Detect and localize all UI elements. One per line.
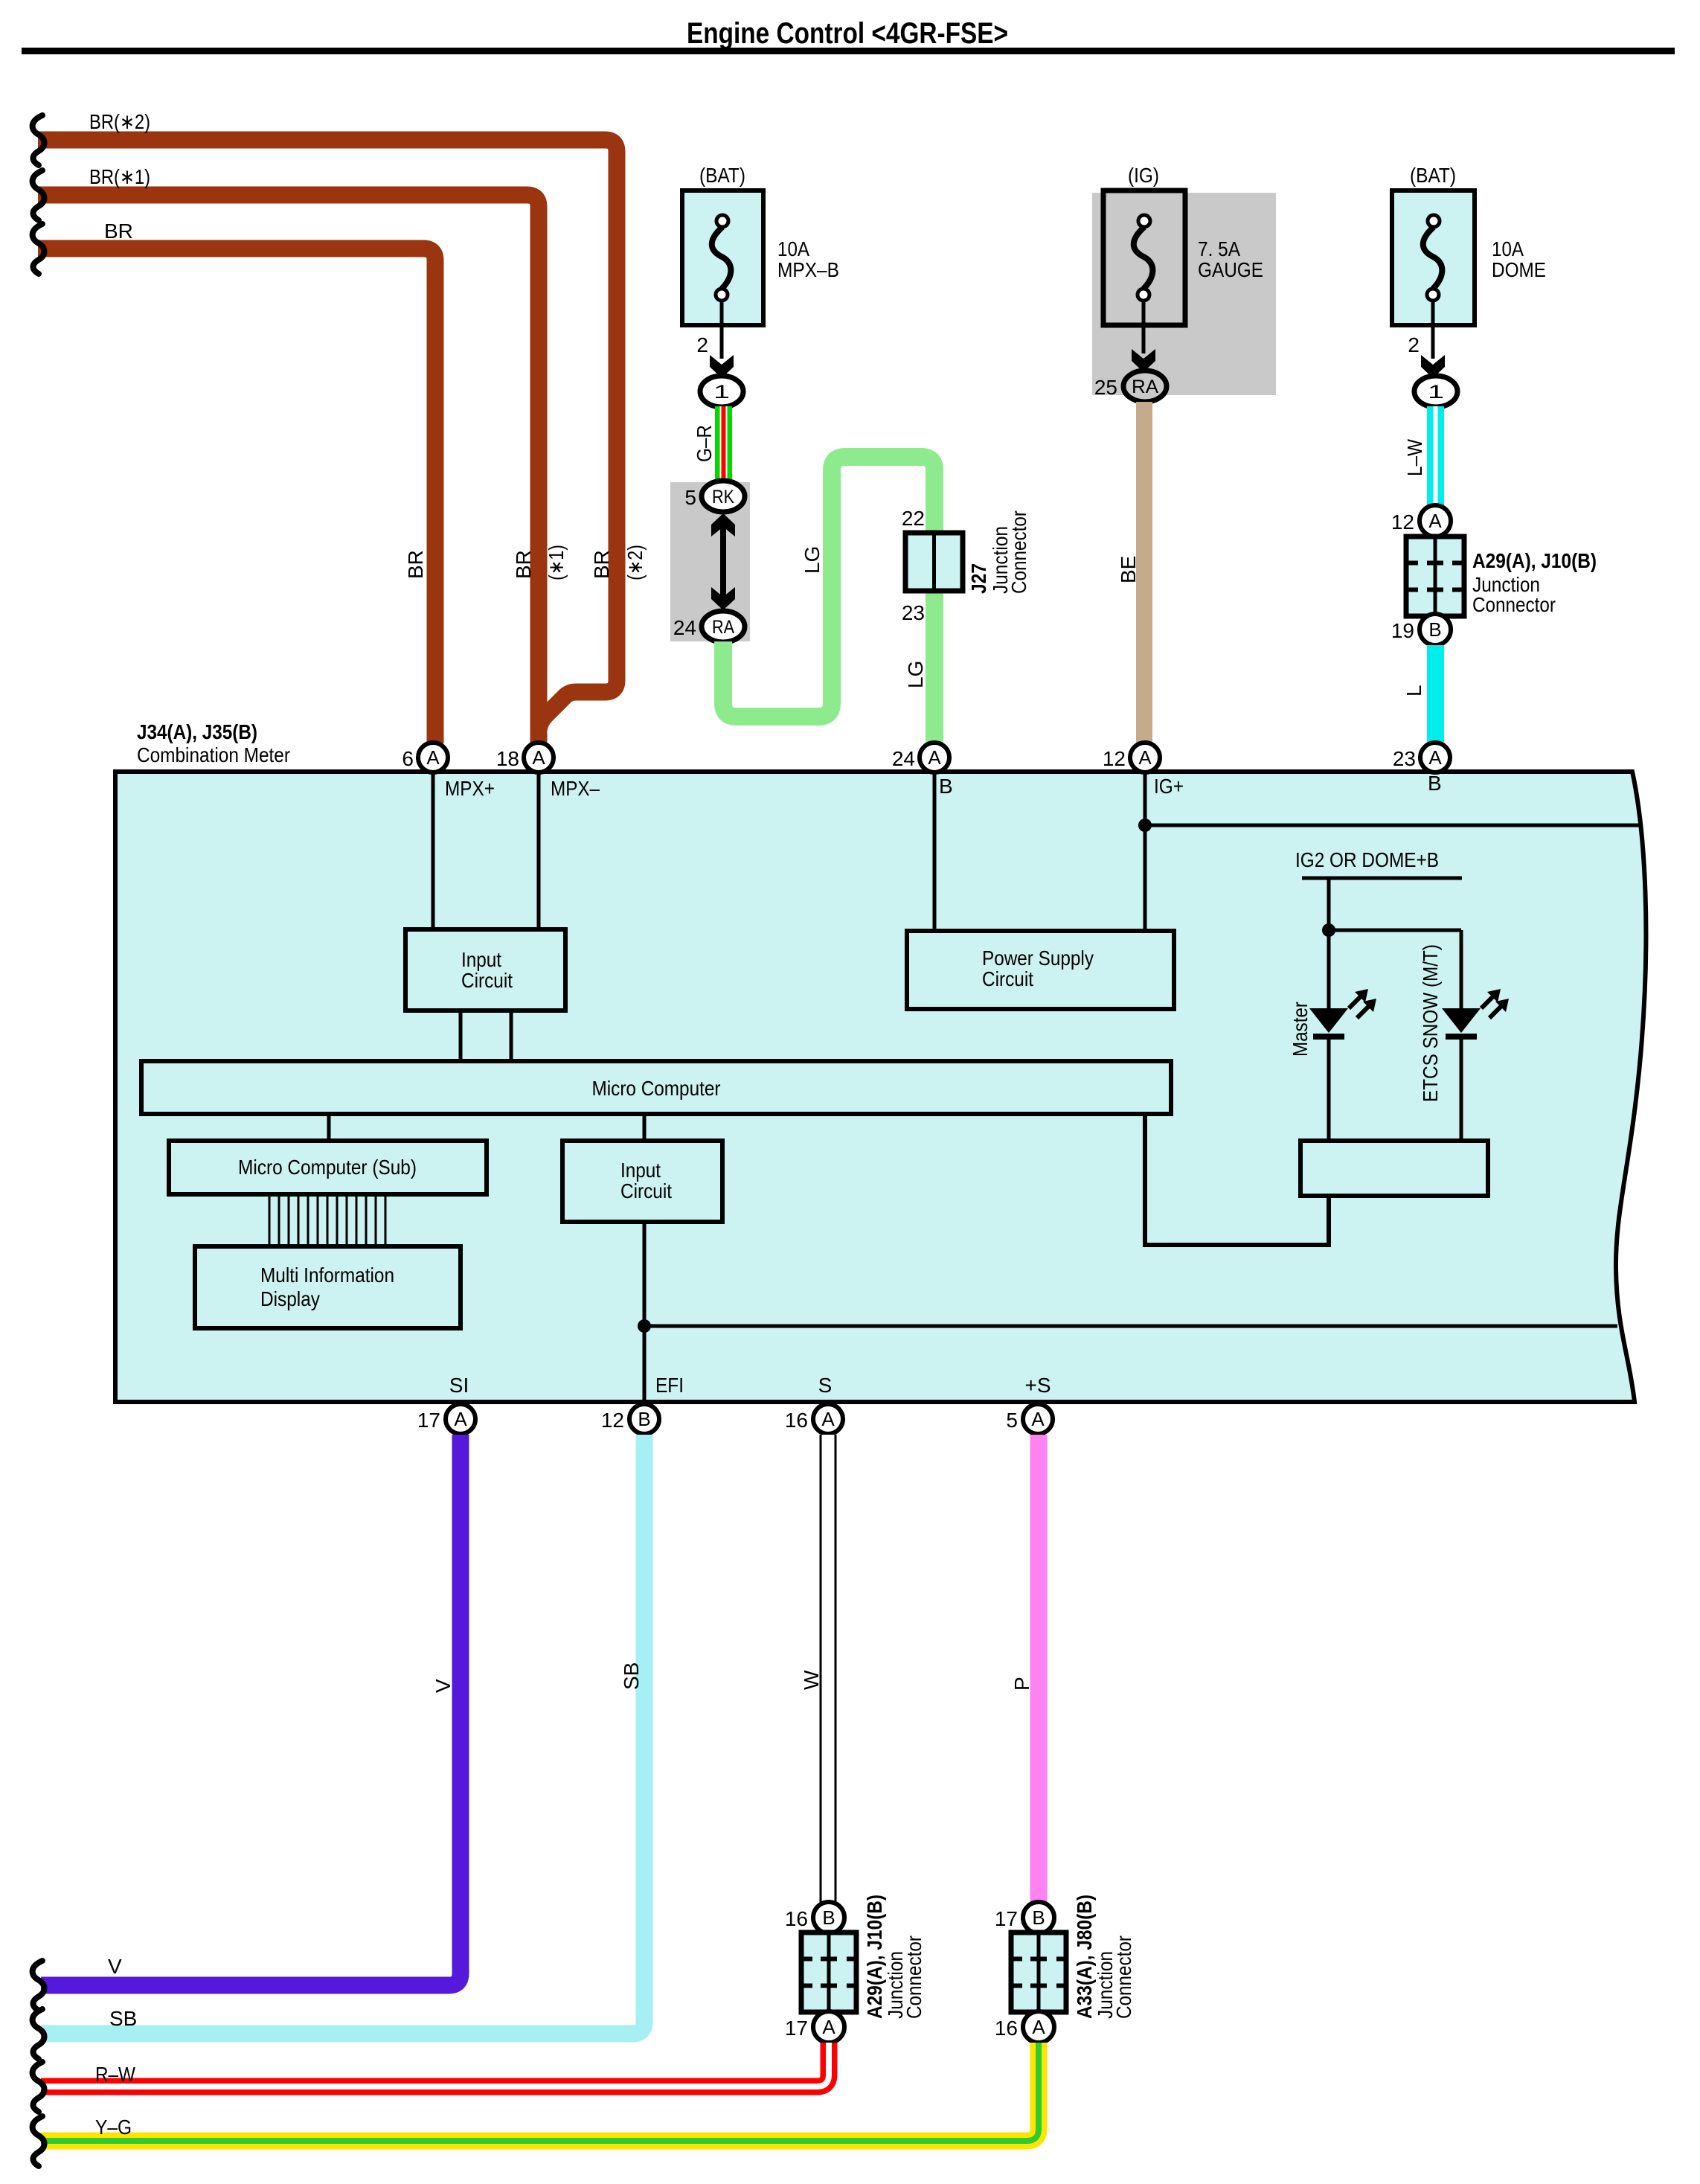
svg-text:B: B: [1032, 1906, 1045, 1929]
svg-text:A: A: [454, 1408, 467, 1430]
wire BE: [1136, 402, 1152, 743]
double arrow RK-RA: [720, 521, 726, 603]
wire SB: [41, 1435, 644, 2034]
svg-text:BR: BR: [590, 550, 613, 579]
Input Circuit box 1: [405, 929, 565, 1011]
svg-text:BR: BR: [404, 550, 427, 579]
svg-text:MPX–B: MPX–B: [777, 258, 839, 281]
svg-text:22: 22: [902, 507, 925, 530]
pin 16 circle B (A29 bottom): [813, 1902, 844, 1933]
ribbon Sub to Multi Information Display: [269, 1194, 385, 1246]
Multi Information Display box: [195, 1246, 461, 1328]
svg-text:B: B: [822, 1906, 835, 1929]
svg-text:A: A: [822, 2016, 835, 2038]
svg-text:B: B: [638, 1408, 650, 1430]
svg-text:Display: Display: [260, 1287, 320, 1310]
svg-text:SB: SB: [620, 1662, 643, 1690]
wire BR(*2): [38, 140, 617, 743]
pin 18 circle A (MPX-): [524, 743, 554, 772]
svg-text:Power Supply: Power Supply: [982, 947, 1094, 970]
relay block gray box: [670, 482, 750, 641]
svg-text:Micro Computer: Micro Computer: [592, 1077, 721, 1100]
torn end Y-G: [33, 2116, 45, 2166]
svg-text:A33(A), J80(B): A33(A), J80(B): [1073, 1895, 1096, 2019]
Micro Computer box: [141, 1061, 1171, 1114]
arrow from fuse F2: [1142, 301, 1146, 353]
svg-text:19: 19: [1391, 619, 1414, 642]
wire V: [41, 1435, 461, 1985]
title rule: [22, 48, 1675, 54]
svg-text:W: W: [800, 1670, 823, 1690]
svg-text:23: 23: [1393, 747, 1416, 770]
svg-text:A: A: [426, 746, 440, 769]
svg-text:LG: LG: [801, 546, 824, 574]
svg-text:RK: RK: [712, 487, 734, 507]
svg-text:MPX–: MPX–: [551, 777, 600, 800]
svg-text:Circuit: Circuit: [461, 969, 513, 992]
pin 12 circle A (IG+): [1130, 743, 1160, 772]
svg-text:(∗2): (∗2): [623, 545, 647, 580]
svg-text:A: A: [1032, 2016, 1045, 2038]
node LED branch: [1322, 923, 1335, 937]
svg-text:17: 17: [995, 1907, 1018, 1930]
svg-text:B: B: [1428, 772, 1442, 795]
pin 2 of fuse F1: [720, 301, 724, 359]
svg-text:17: 17: [417, 1409, 440, 1432]
svg-text:A: A: [1428, 746, 1442, 769]
svg-text:1: 1: [1428, 382, 1444, 403]
svg-text:V: V: [108, 1955, 122, 1978]
pin 24 circle A (B): [920, 743, 949, 772]
wires Input Circuit 1 to Micro Computer: [459, 1011, 463, 1061]
svg-text:L: L: [1402, 685, 1425, 696]
svg-text:BR: BR: [104, 220, 133, 243]
svg-text:BR(∗2): BR(∗2): [89, 110, 150, 133]
svg-text:BE: BE: [1117, 556, 1140, 583]
svg-text:BR: BR: [512, 550, 535, 579]
svg-text:(BAT): (BAT): [1410, 164, 1456, 187]
svg-text:L–W: L–W: [1403, 439, 1426, 476]
svg-text:IG2 OR DOME+B: IG2 OR DOME+B: [1295, 848, 1439, 871]
power bar IG2 OR DOME+B: [1302, 877, 1462, 880]
svg-text:24: 24: [673, 616, 696, 639]
svg-text:Circuit: Circuit: [982, 967, 1033, 990]
node IG+ junction: [1138, 819, 1152, 832]
wire B internal: [933, 772, 937, 931]
svg-text:DOME: DOME: [1492, 258, 1546, 281]
svg-text:A: A: [821, 1408, 835, 1430]
connector circle 1 (F3): [1414, 376, 1457, 407]
wire MPX- internal: [537, 772, 541, 929]
pin 6 circle A (MPX+): [418, 743, 448, 772]
svg-text:MPX+: MPX+: [445, 777, 495, 800]
torn end BR: [33, 224, 45, 274]
svg-text:Engine Control <4GR-FSE>: Engine Control <4GR-FSE>: [687, 17, 1008, 50]
wire IG+ internal: [1144, 772, 1147, 931]
gray background for fuse F2: [1092, 193, 1276, 395]
svg-text:A29(A), J10(B): A29(A), J10(B): [1472, 549, 1597, 572]
combination meter body: [115, 772, 1646, 1402]
connector circle 1 (F1): [700, 376, 743, 407]
svg-text:Multi Information: Multi Information: [260, 1264, 394, 1287]
svg-text:J34(A), J35(B): J34(A), J35(B): [137, 720, 257, 743]
LED ETCS SNOW (M/T): [1442, 1008, 1481, 1033]
svg-text:P: P: [1010, 1677, 1033, 1691]
wire Micro Computer to Input Circuit 2: [643, 1114, 647, 1141]
svg-text:B: B: [939, 775, 953, 798]
svg-text:GAUGE: GAUGE: [1198, 258, 1263, 281]
node EFI junction: [638, 1319, 651, 1333]
svg-text:SI: SI: [449, 1374, 469, 1397]
pin 17 circle A (A29 bottom): [813, 2011, 844, 2043]
svg-text:5: 5: [684, 486, 696, 509]
pin 16 circle A (A33): [1023, 2011, 1054, 2043]
svg-text:12: 12: [601, 1409, 624, 1432]
torn end SB: [33, 2009, 45, 2059]
svg-text:16: 16: [785, 1409, 808, 1432]
wire EFI internal: [643, 1222, 647, 1403]
svg-text:16: 16: [785, 1907, 808, 1930]
junction connector J27: [905, 533, 963, 591]
wire L: [1427, 645, 1444, 743]
arrow from fuse F1: [710, 355, 734, 378]
pin 12 circle B (EFI): [629, 1404, 659, 1434]
svg-text:G–R: G–R: [693, 425, 716, 462]
Input Circuit box 2: [562, 1141, 722, 1222]
Power Supply Circuit box: [907, 931, 1174, 1009]
wire EFI to page edge: [644, 1325, 1617, 1328]
svg-text:B: B: [1428, 618, 1441, 641]
wire LG: [723, 457, 934, 743]
wire BR(*1): [38, 195, 539, 743]
connector oval RA pin 25 (F2): [1123, 371, 1167, 402]
svg-text:1: 1: [713, 382, 730, 403]
svg-text:J27: J27: [967, 563, 990, 594]
svg-text:10A: 10A: [1492, 237, 1524, 260]
pin 2 of fuse F3: [1431, 301, 1435, 359]
svg-text:A: A: [1138, 746, 1152, 769]
svg-text:+S: +S: [1024, 1374, 1051, 1397]
torn end BR(*2): [33, 115, 45, 165]
svg-text:12: 12: [1103, 747, 1126, 770]
svg-text:(IG): (IG): [1128, 164, 1159, 187]
svg-text:Circuit: Circuit: [620, 1179, 672, 1203]
svg-text:5: 5: [1006, 1409, 1018, 1432]
svg-text:RA: RA: [1132, 377, 1158, 397]
svg-text:Master: Master: [1289, 1002, 1312, 1057]
svg-text:Micro Computer (Sub): Micro Computer (Sub): [238, 1156, 417, 1179]
svg-text:25: 25: [1094, 376, 1117, 399]
junction connector A29(A), J10(B) bottom: [801, 1932, 856, 2012]
pin 17 circle B (A33): [1023, 1902, 1054, 1933]
svg-text:Input: Input: [620, 1159, 661, 1182]
svg-text:Input: Input: [461, 948, 501, 971]
svg-text:A29(A), J10(B): A29(A), J10(B): [863, 1895, 886, 2019]
wire IG+ to page edge: [1145, 824, 1642, 827]
wire G-R: [715, 406, 732, 481]
svg-text:A: A: [1428, 510, 1442, 532]
LED driver box: [1300, 1141, 1488, 1196]
svg-text:BR(∗1): BR(∗1): [89, 165, 150, 188]
svg-text:6: 6: [402, 747, 414, 770]
wire Micro Computer to Sub: [327, 1114, 331, 1141]
torn end R-W: [33, 2062, 45, 2112]
fuse F1 10A MPX-B: [682, 190, 763, 325]
svg-text:(∗1): (∗1): [545, 545, 568, 580]
arrow from fuse F3: [1421, 355, 1445, 378]
svg-text:18: 18: [496, 747, 519, 770]
svg-text:IG+: IG+: [1154, 775, 1184, 798]
svg-text:Connector: Connector: [902, 1935, 926, 2019]
svg-text:24: 24: [892, 747, 915, 770]
svg-text:Y–G: Y–G: [95, 2116, 132, 2139]
svg-text:12: 12: [1391, 510, 1414, 534]
svg-text:V: V: [432, 1679, 455, 1693]
wire P: [1030, 1435, 1048, 1903]
svg-text:2: 2: [696, 333, 708, 356]
torn end BR(*1): [33, 170, 45, 220]
torn end V: [33, 1961, 45, 2011]
svg-text:Connector: Connector: [1112, 1935, 1135, 2019]
junction connector A29(A), J10(B): [1406, 537, 1464, 616]
pin 5 circle A (+S): [1023, 1404, 1053, 1434]
svg-text:A: A: [532, 746, 545, 769]
fuse F2 7.5A GAUGE: [1103, 190, 1185, 325]
wire micro computer to LED driver box: [1145, 1114, 1329, 1245]
connector oval RK pin 5: [702, 481, 745, 512]
wire from bar to Master LED: [1327, 878, 1331, 1010]
junction connector A33(A), J80(B): [1011, 1932, 1066, 2012]
svg-text:ETCS SNOW (M/T): ETCS SNOW (M/T): [1419, 944, 1442, 1102]
svg-text:23: 23: [902, 601, 925, 624]
LED Master: [1309, 1008, 1348, 1033]
pin 17 circle A (SI): [446, 1404, 475, 1434]
fuse F3 10A DOME: [1392, 190, 1475, 325]
svg-text:S: S: [818, 1374, 833, 1397]
svg-text:A: A: [1031, 1408, 1045, 1430]
wire MPX+ internal: [432, 772, 435, 929]
svg-text:7. 5A: 7. 5A: [1198, 237, 1240, 260]
pin 12 circle A (A29 top): [1420, 505, 1451, 537]
svg-text:Combination Meter: Combination Meter: [137, 743, 290, 766]
svg-text:17: 17: [785, 2017, 808, 2040]
svg-text:(BAT): (BAT): [699, 164, 745, 187]
svg-text:R–W: R–W: [95, 2063, 135, 2086]
wire L-W: [1427, 406, 1444, 505]
svg-text:EFI: EFI: [655, 1374, 684, 1397]
wire Y-G: [41, 2043, 1039, 2141]
svg-text:16: 16: [995, 2017, 1018, 2040]
pin 23 circle A (B): [1420, 743, 1450, 772]
pin 16 circle A (S): [813, 1404, 843, 1434]
wire R-W: [41, 2043, 829, 2087]
connector oval RA pin 24: [702, 611, 745, 642]
wires LEDs to driver box: [1327, 1040, 1331, 1141]
svg-text:LG: LG: [904, 661, 927, 688]
pin 19 circle B (A29 top): [1420, 614, 1451, 645]
wire BR: [38, 249, 435, 743]
svg-text:Connector: Connector: [1007, 510, 1030, 594]
svg-text:SB: SB: [109, 2007, 137, 2030]
svg-text:10A: 10A: [777, 237, 809, 260]
Micro Computer (Sub) box: [169, 1141, 487, 1194]
svg-text:A: A: [928, 746, 941, 769]
svg-text:RA: RA: [712, 617, 734, 638]
wire branch to ETCS LED: [1329, 929, 1461, 932]
wire W: [820, 1435, 836, 1903]
svg-text:Connector: Connector: [1472, 593, 1556, 616]
svg-text:2: 2: [1408, 333, 1420, 356]
